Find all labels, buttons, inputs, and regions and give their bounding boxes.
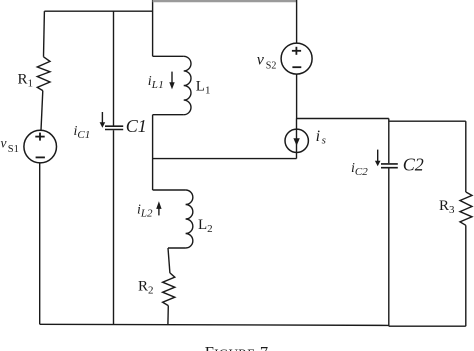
svg-text:R1: R1 (18, 72, 34, 90)
svg-text:iC2: iC2 (351, 161, 368, 178)
svg-text:L2: L2 (198, 217, 213, 235)
svg-text:s: s (322, 134, 326, 146)
svg-text:S2: S2 (266, 60, 277, 71)
svg-text:S1: S1 (8, 144, 19, 155)
svg-text:v: v (257, 52, 265, 69)
svg-text:R3: R3 (439, 198, 455, 216)
svg-text:iC1: iC1 (74, 124, 91, 141)
svg-text:iL1: iL1 (148, 74, 164, 91)
svg-text:i: i (316, 128, 320, 145)
svg-text:v: v (1, 136, 7, 151)
svg-text:L1: L1 (196, 79, 211, 97)
svg-text:C2: C2 (403, 155, 424, 175)
svg-text:FIGURE 7: FIGURE 7 (205, 343, 269, 351)
svg-text:C1: C1 (126, 116, 147, 136)
svg-text:iL2: iL2 (137, 203, 153, 220)
svg-text:R2: R2 (138, 279, 154, 297)
